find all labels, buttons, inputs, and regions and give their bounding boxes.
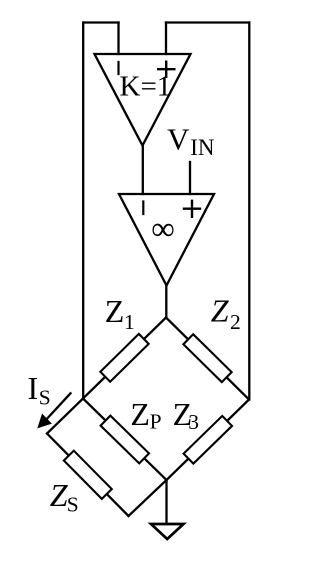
svg-text:∞: ∞: [151, 212, 175, 248]
resistor Z1 body: [100, 334, 148, 382]
wire: left feedback vertical: [82, 23, 84, 399]
resistor ZP body: [101, 416, 149, 464]
wire: top-left horizontal: [83, 21, 118, 23]
wire: left node to outer corner (IS branch): [47, 399, 83, 434]
wire: bridge arm left node to bottom node (ZP arm): [83, 399, 167, 481]
svg-text:IN: IN: [190, 135, 215, 160]
resistor ZS body: [64, 451, 112, 499]
wire: bridge arm top node to left node (Z1 arm): [83, 318, 166, 399]
wire: right vertical to bridge right node: [248, 23, 250, 400]
svg-text:Z: Z: [130, 396, 150, 432]
wire: bridge arm right node to bottom node (Z3 arm): [167, 400, 250, 481]
svg-text:S: S: [67, 493, 79, 517]
current arrow IS shaft: [47, 393, 71, 419]
minus tick U2 inverting input: [142, 202, 144, 215]
svg-text:I: I: [28, 370, 39, 406]
minus tick U1 inverting input: [117, 62, 119, 74]
svg-text:S: S: [39, 386, 51, 410]
op-amp U2 infinity-gain triangle: [119, 194, 214, 286]
svg-text:3: 3: [188, 410, 199, 434]
svg-text:Z: Z: [211, 293, 230, 329]
wire: top-right horizontal: [166, 21, 249, 23]
op-amp U1 K=1 buffer triangle: [95, 54, 191, 146]
wire: K=1 non-inverting input stub: [165, 23, 167, 55]
svg-text:V: V: [167, 122, 190, 157]
wire: bridge arm top node to right node (Z2 arm): [166, 318, 249, 400]
wire: U1 output to U2 inverting input: [142, 146, 144, 195]
wire: K=1 inverting input stub: [117, 23, 119, 55]
resistor Z3 body: [184, 416, 232, 464]
svg-text:Z: Z: [105, 293, 125, 329]
wire: ground stem: [165, 480, 167, 524]
plus sign U1 non-inverting input: [158, 62, 174, 77]
resistor Z2 body: [183, 334, 231, 382]
svg-text:K=1: K=1: [120, 71, 172, 103]
svg-text:2: 2: [230, 310, 241, 334]
svg-text:1: 1: [124, 310, 135, 334]
wire: bottom outer corner up to bridge bottom node: [129, 480, 167, 516]
wire: VIN input stub: [189, 162, 191, 194]
wire: outer corner to bottom outer corner (ZS arm): [47, 434, 129, 517]
plus sign U2 non-inverting input: [184, 201, 200, 217]
current arrow IS head: [38, 415, 51, 428]
wire: U2 output to bridge top node: [165, 286, 167, 318]
ground symbol triangle: [151, 524, 184, 539]
svg-text:P: P: [150, 410, 162, 434]
